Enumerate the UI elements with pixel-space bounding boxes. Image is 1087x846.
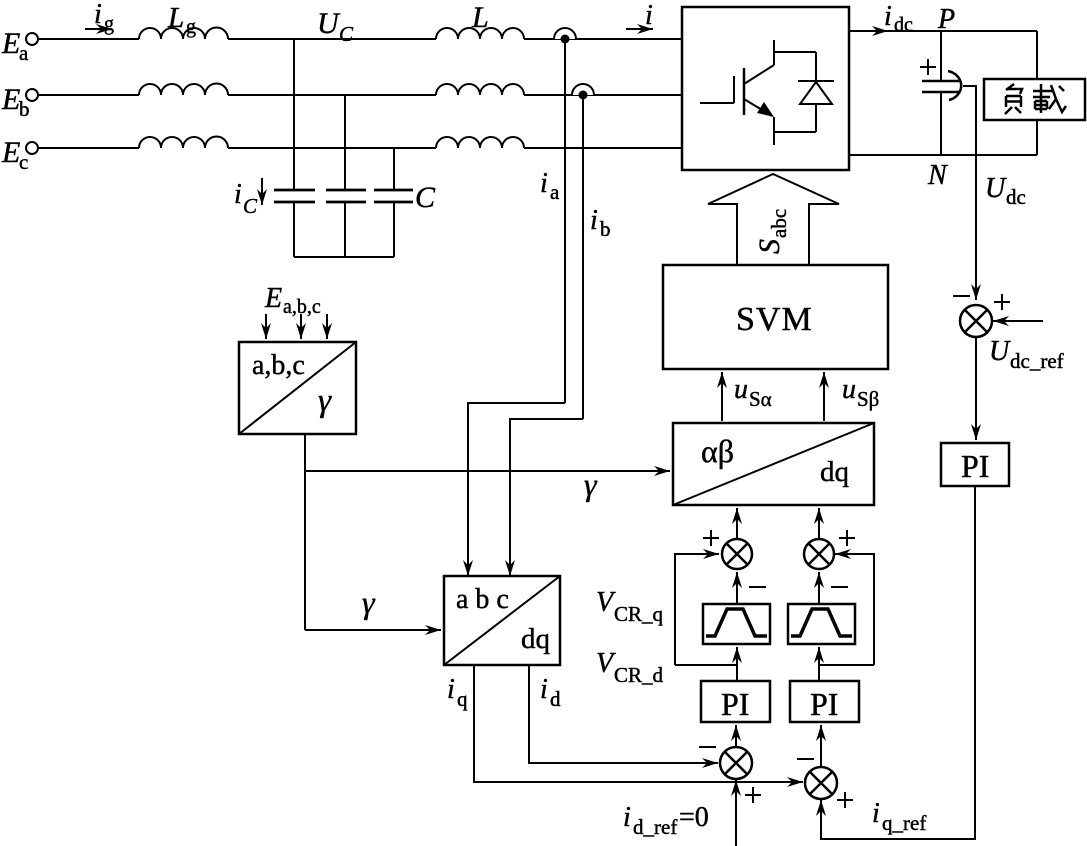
label Udc xyxy=(985,173,1026,209)
label ig xyxy=(94,0,114,35)
wire load top xyxy=(1036,31,1038,79)
minus sign Udc summator xyxy=(953,295,970,297)
label Ec xyxy=(1,136,28,174)
saturation block left xyxy=(703,604,770,644)
label id-ref xyxy=(623,802,709,839)
svg-text:b: b xyxy=(600,217,611,241)
svg-text:dc_ref: dc_ref xyxy=(1010,349,1064,373)
svg-text:L: L xyxy=(471,1,489,34)
svg-text:U: U xyxy=(989,336,1011,367)
wire phase c middle xyxy=(228,147,436,149)
svg-text:Sα: Sα xyxy=(749,387,772,411)
svg-text:S: S xyxy=(753,239,786,254)
svg-text:d: d xyxy=(550,687,561,711)
block alpha-beta to dq xyxy=(673,423,874,505)
label dq of alpha-beta block xyxy=(820,456,849,488)
capacitor Cdc plates xyxy=(922,81,960,92)
svg-text:d_ref: d_ref xyxy=(633,815,677,839)
inductor L phase a xyxy=(436,28,524,39)
label Udc-ref xyxy=(989,336,1064,373)
wire phase a to converter xyxy=(524,38,682,40)
wire phase b to converter xyxy=(524,94,682,96)
current sensor ib dot xyxy=(579,91,588,100)
svg-text:γ: γ xyxy=(362,584,376,620)
label i xyxy=(645,0,653,31)
label C xyxy=(415,181,436,214)
feedback rail left xyxy=(675,554,719,665)
arrow upper-left summator to dq block xyxy=(736,508,738,539)
label id xyxy=(540,674,561,711)
summator lower-right circle xyxy=(805,767,837,799)
label ia xyxy=(540,168,560,204)
label load char1 (fu) xyxy=(1005,84,1022,114)
svg-text:U: U xyxy=(317,7,341,40)
summator upper-right circle xyxy=(804,539,834,569)
label load char2 (zai) xyxy=(1033,84,1066,113)
svg-text:u: u xyxy=(842,374,856,405)
svg-text:C: C xyxy=(243,194,258,218)
inductor Lg phase b xyxy=(139,84,228,96)
svg-text:PI: PI xyxy=(810,686,838,722)
svg-text:Sβ: Sβ xyxy=(857,387,879,411)
IGBT emitter arrowhead xyxy=(757,102,774,117)
wire phase b middle xyxy=(228,94,436,96)
label uSa xyxy=(734,374,772,411)
wire cap bottom bus xyxy=(294,256,394,258)
label Eb xyxy=(1,83,30,121)
svg-text:SVM: SVM xyxy=(736,301,813,338)
arrow uSb into SVM xyxy=(823,372,825,421)
wire iq xyxy=(474,665,803,782)
label VCRq xyxy=(596,587,664,626)
wire iq-ref input xyxy=(821,486,975,839)
summator upper-left circle xyxy=(722,539,752,569)
terminal Ec xyxy=(26,142,38,154)
svg-text:i: i xyxy=(872,798,880,829)
IGBT gate lead xyxy=(700,76,734,103)
svg-text:CR_q: CR_q xyxy=(614,602,664,626)
svg-text:b: b xyxy=(19,97,30,121)
diode cathode bar xyxy=(798,80,834,82)
svg-text:dq: dq xyxy=(521,623,550,655)
block alpha-beta to dq diagonal xyxy=(673,423,874,505)
arrow left saturation to summator xyxy=(736,572,738,604)
label gamma lower xyxy=(362,584,376,620)
svg-text:i: i xyxy=(234,179,242,210)
current sensor ia bump xyxy=(554,28,576,39)
plus sign upper-right summator xyxy=(839,530,855,546)
minus sign lower-right summator xyxy=(797,758,814,760)
label ib xyxy=(590,205,611,241)
svg-text:g: g xyxy=(186,16,196,38)
svg-text:i: i xyxy=(590,205,598,236)
arrow lower-right summator to PI xyxy=(820,725,822,767)
block abc-gamma xyxy=(239,342,356,434)
label abc of abc-gamma block xyxy=(252,350,305,381)
svg-text:i: i xyxy=(884,1,892,32)
IGBT emitter xyxy=(744,99,774,145)
block SVM xyxy=(663,265,888,369)
wire gamma to abc-dq block xyxy=(305,629,441,631)
wire phase c left xyxy=(38,147,139,149)
wire cap branch a lower xyxy=(293,202,295,257)
block PI right xyxy=(790,681,859,722)
svg-text:E: E xyxy=(1,136,20,169)
feedback rail left bottom xyxy=(675,664,737,666)
label PI dc xyxy=(961,448,989,484)
inductor Lg phase c xyxy=(139,137,228,149)
wire gamma to alpha-beta block xyxy=(305,470,670,472)
wire id xyxy=(529,665,718,763)
wire diode upper xyxy=(815,52,817,81)
block abc-gamma diagonal xyxy=(239,342,356,434)
svg-text:E: E xyxy=(1,27,20,60)
current sensor ia dot xyxy=(561,35,570,44)
svg-text:u: u xyxy=(734,374,748,405)
wire phase c to converter xyxy=(524,147,682,149)
current sensor ib bump xyxy=(572,84,594,95)
terminal Eb xyxy=(26,89,38,101)
minus sign right xyxy=(831,586,848,588)
IGBT body bar xyxy=(743,68,746,115)
svg-text:dc: dc xyxy=(1006,185,1026,209)
svg-text:a,b,c: a,b,c xyxy=(252,350,305,381)
label uSb xyxy=(842,374,879,411)
svg-text:i: i xyxy=(623,802,631,833)
svg-text:i: i xyxy=(540,168,548,199)
svg-text:αβ: αβ xyxy=(701,433,734,469)
label gamma upper xyxy=(584,466,598,502)
svg-text:V: V xyxy=(596,587,616,618)
label iq-ref xyxy=(872,798,926,835)
minus sign lower-left summator xyxy=(699,746,716,748)
wire dc link vertical lower xyxy=(940,92,942,155)
arrow iC xyxy=(261,178,263,205)
wire emitter to diode xyxy=(774,131,816,133)
svg-text:a: a xyxy=(550,180,560,204)
wire cap branch c lower xyxy=(393,202,395,257)
svg-text:q: q xyxy=(457,687,468,711)
capacitor C phase b plates xyxy=(326,190,366,202)
label P xyxy=(937,4,955,35)
svg-text:dq: dq xyxy=(820,456,849,488)
svg-text:E: E xyxy=(1,83,20,116)
wire cap branch c upper xyxy=(393,148,395,190)
wire load bottom xyxy=(1036,120,1038,155)
svg-text:E: E xyxy=(264,283,282,314)
IGBT collector xyxy=(744,40,774,84)
arrowhead idc xyxy=(858,30,888,32)
svg-text:γ: γ xyxy=(584,466,598,502)
svg-text:i: i xyxy=(540,674,548,705)
wire ib sense vertical xyxy=(582,99,584,419)
label abc of abc-dq block xyxy=(456,584,509,615)
svg-text:a: a xyxy=(19,41,29,65)
load block xyxy=(984,79,1085,120)
wire diode lower xyxy=(815,104,817,132)
arrow Ec into block xyxy=(326,314,328,339)
svg-text:a b c: a b c xyxy=(456,584,509,615)
diode triangle xyxy=(800,82,832,104)
summator lower-left circle xyxy=(720,747,752,779)
wire phase a left xyxy=(38,38,139,40)
arrow lower-left summator to PI xyxy=(735,725,737,747)
block abc-dq xyxy=(444,576,560,665)
svg-text:C: C xyxy=(415,181,436,214)
arrow uSa into SVM xyxy=(721,372,723,421)
svg-text:abc: abc xyxy=(767,209,791,238)
label N xyxy=(927,160,948,191)
wire gamma vertical xyxy=(304,434,306,630)
label dq of abc-dq block xyxy=(521,623,550,655)
label PI left xyxy=(721,686,749,722)
converter block xyxy=(682,7,849,170)
plus sign lower-left summator xyxy=(745,787,761,803)
svg-text:=0: =0 xyxy=(679,802,709,833)
arrow right PI to saturation xyxy=(818,647,820,681)
capacitor Cdc plus sign xyxy=(920,59,936,75)
arrow Udc summator to PI xyxy=(975,337,977,440)
svg-text:i: i xyxy=(447,674,455,705)
svg-text:i: i xyxy=(645,0,653,31)
minus sign left xyxy=(749,586,766,588)
label VCRd xyxy=(596,648,664,687)
saturation curve right xyxy=(791,609,852,636)
inductor L phase b xyxy=(436,84,524,95)
svg-text:L: L xyxy=(167,2,184,34)
inductor Lg phase a xyxy=(139,27,228,39)
terminal Ea xyxy=(26,33,38,45)
svg-text:i: i xyxy=(94,0,102,30)
plus sign Udc summator xyxy=(994,294,1010,310)
capacitor C phase a plates xyxy=(274,190,315,202)
inductor L phase c xyxy=(436,137,524,148)
svg-text:V: V xyxy=(596,648,616,679)
voltage sensor arc xyxy=(948,71,961,100)
arrow ig xyxy=(85,28,112,30)
label Ea xyxy=(1,27,29,65)
feedback rail right xyxy=(835,554,874,665)
wire collector to diode xyxy=(774,51,816,53)
label Sabc rotated xyxy=(753,209,791,254)
svg-text:C: C xyxy=(339,22,354,46)
svg-text:c: c xyxy=(19,150,28,174)
svg-text:CR_d: CR_d xyxy=(614,663,664,687)
label UC xyxy=(317,7,354,46)
wire phase b left xyxy=(38,94,139,96)
arrow right saturation to summator xyxy=(818,572,820,604)
feedback rail right bottom xyxy=(819,664,874,666)
svg-text:g: g xyxy=(104,13,114,35)
svg-text:q_ref: q_ref xyxy=(882,811,926,835)
Sabc block arrow xyxy=(708,174,839,265)
svg-text:U: U xyxy=(985,173,1007,204)
svg-text:PI: PI xyxy=(961,448,989,484)
label gamma of abc-gamma block xyxy=(318,383,332,419)
label L xyxy=(471,1,489,34)
arrow Eb into block xyxy=(300,314,302,339)
wire cap branch b upper xyxy=(344,95,346,190)
summator Udc circle xyxy=(960,305,992,337)
wire Udc-ref input xyxy=(993,320,1043,322)
saturation block right xyxy=(788,604,855,644)
label idc xyxy=(884,1,913,36)
label Lg xyxy=(167,2,196,38)
arrow i xyxy=(626,28,653,30)
wire phase a middle xyxy=(228,38,436,40)
arrow Ea into block xyxy=(265,314,267,339)
svg-text:N: N xyxy=(927,160,948,191)
label alpha-beta xyxy=(701,433,734,469)
capacitor C phase c plates xyxy=(374,190,413,202)
label SVM xyxy=(736,301,813,338)
wire ia sense jog xyxy=(468,403,565,576)
block PI left xyxy=(701,681,770,722)
wire ib sense jog xyxy=(510,419,583,576)
wire cap branch a upper xyxy=(293,39,295,190)
svg-text:P: P xyxy=(937,4,955,35)
label PI right xyxy=(810,686,838,722)
wire cap branch b lower xyxy=(344,202,346,257)
label iC xyxy=(234,179,258,218)
arrow left PI to saturation xyxy=(736,647,738,681)
plus sign upper-left summator xyxy=(703,530,719,546)
wire dc link vertical upper xyxy=(940,31,942,81)
saturation curve left xyxy=(706,609,767,636)
plus sign lower-right summator xyxy=(837,792,853,808)
svg-text:γ: γ xyxy=(318,383,332,419)
wire dc bottom xyxy=(849,154,1037,156)
label iq xyxy=(447,674,468,711)
wire dc top xyxy=(849,30,1037,32)
wire ia sense vertical xyxy=(564,43,566,403)
block abc-dq diagonal xyxy=(444,576,560,665)
label Eabc xyxy=(264,283,321,318)
block PI dc xyxy=(941,443,1009,486)
svg-text:PI: PI xyxy=(721,686,749,722)
wire id-ref input xyxy=(735,780,737,846)
wire Udc sense xyxy=(963,86,976,300)
arrow upper-right summator to dq block xyxy=(818,508,820,539)
svg-text:dc: dc xyxy=(894,14,913,36)
